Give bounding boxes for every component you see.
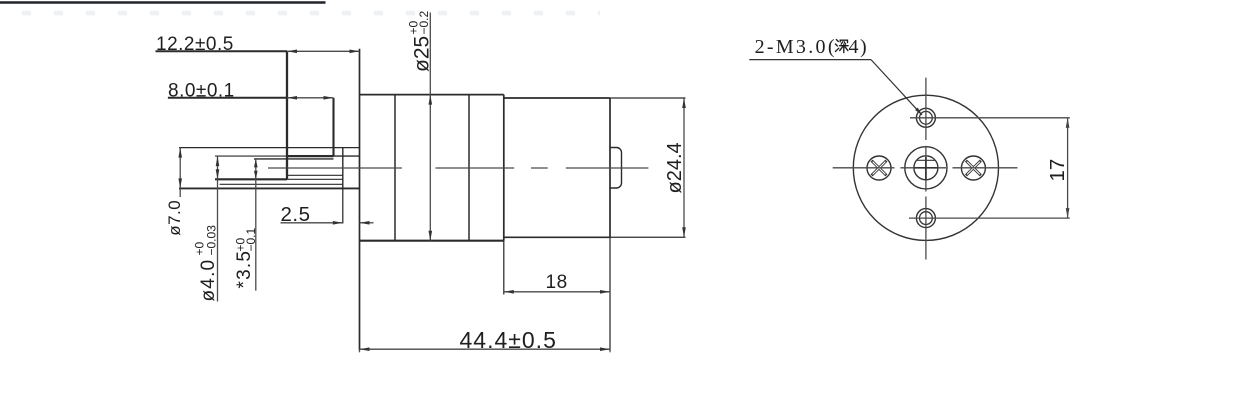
svg-text:ø7.0: ø7.0 — [165, 200, 184, 236]
svg-text:2-M3.0(: 2-M3.0( — [755, 36, 837, 58]
svg-text:−0.1: −0.1 — [244, 227, 258, 251]
svg-text:17: 17 — [1046, 159, 1069, 182]
svg-text:ø25: ø25 — [411, 36, 434, 72]
svg-text:8.0±0.1: 8.0±0.1 — [168, 80, 235, 101]
svg-text:12.2±0.5: 12.2±0.5 — [156, 34, 234, 55]
svg-text:ø24.4: ø24.4 — [664, 142, 686, 193]
svg-text:−0.03: −0.03 — [205, 225, 219, 256]
svg-text:2.5: 2.5 — [281, 203, 311, 226]
svg-text:4): 4) — [849, 36, 869, 58]
svg-text:*3.5: *3.5 — [234, 250, 255, 289]
svg-text:44.4±0.5: 44.4±0.5 — [460, 327, 557, 353]
svg-text:18: 18 — [546, 272, 568, 293]
svg-text:ø4.0: ø4.0 — [198, 259, 219, 302]
svg-text:−0.2: −0.2 — [417, 10, 431, 34]
